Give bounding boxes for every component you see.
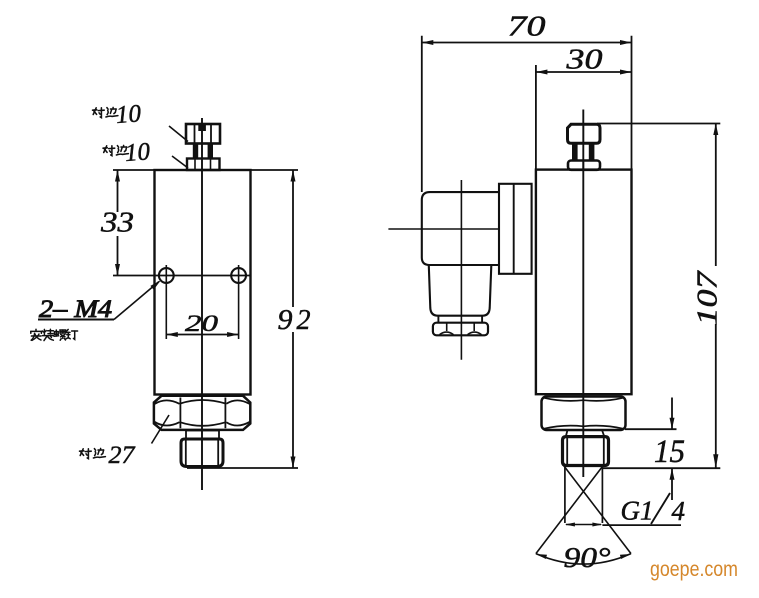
dimension 33 line with arrows [117, 170, 119, 212]
dimension 70 line with arrows [422, 42, 632, 44]
bottom extension line (left view) [187, 467, 298, 469]
gland hex nut [433, 323, 488, 336]
svg-text:goepe.com: goepe.com [650, 558, 738, 581]
svg-text:30: 30 [565, 45, 602, 76]
svg-text:27: 27 [109, 442, 137, 469]
hole centerline / extension down to 20-dim (right) [238, 265, 240, 339]
small diameter arrows at cone start [566, 524, 601, 526]
hole centerline / extension down to 20-dim (left) [165, 265, 167, 339]
svg-text:G1: G1 [621, 496, 654, 526]
dimension 30 line with arrows [536, 71, 632, 73]
connector vertical centerline [460, 180, 462, 360]
left view: screw stem between nuts [193, 144, 213, 160]
svg-text:9: 9 [278, 305, 293, 336]
left view: neck under hex nut [186, 431, 219, 440]
cone sides below port [564, 466, 566, 524]
leader line to upper nut [169, 126, 188, 142]
extension line under hex (15 dim top) [625, 428, 677, 430]
svg-text:20: 20 [185, 311, 219, 336]
extension line left (70) [421, 36, 423, 192]
left view: adjusting screw upper hex nut (对边10) [186, 124, 220, 144]
svg-text:4: 4 [672, 496, 686, 526]
right view: adjusting screw upper hex nut [568, 124, 601, 143]
leader line to lower nut [172, 156, 188, 168]
left view: bottom hex nut 对边27 [154, 396, 250, 430]
label 对边10 (lower) [103, 146, 115, 156]
mounting hole right (M4) [231, 268, 246, 283]
cone X diagonal 2 [536, 466, 603, 554]
connector cable gland taper [429, 266, 492, 316]
G1/4 leader line [602, 524, 681, 526]
right view: adjusting screw lower hex nut [568, 161, 600, 170]
leader to hex nut [152, 415, 170, 444]
dimension 20 line with arrows [166, 334, 238, 336]
connector flange [499, 184, 532, 274]
extension line (30 left) [535, 65, 537, 170]
gland neck [437, 316, 439, 323]
svg-text:10: 10 [124, 138, 151, 167]
label 对边10 (upper) [93, 108, 105, 118]
extension line from screw top to 107 dim [597, 123, 720, 125]
connector horizontal centerline [388, 228, 499, 230]
DIN connector housing [422, 192, 499, 265]
svg-text:107: 107 [693, 270, 724, 325]
left view: threaded port G1/4 [181, 439, 223, 467]
dimension 92 line with arrows [292, 170, 294, 307]
label 安装螺钉 [31, 329, 42, 340]
svg-text:70: 70 [508, 12, 546, 43]
right view: body rectangle [536, 170, 632, 395]
top extension line over body [113, 169, 298, 171]
svg-text:2: 2 [297, 305, 311, 336]
svg-text:15: 15 [654, 434, 685, 470]
left view: adjusting screw lower hex nut (对边10) [187, 159, 220, 171]
right view: bottom hex nut [542, 397, 626, 431]
bottom extension line (right view) [603, 467, 720, 469]
svg-text:10: 10 [115, 100, 142, 129]
cone X diagonal 1 [564, 466, 631, 554]
right view: threaded port G1/4 [563, 437, 609, 466]
90 degree arc with arrows [536, 554, 631, 564]
svg-text:33: 33 [100, 208, 134, 239]
left view: vertical centerline [201, 118, 203, 490]
svg-text:90°: 90° [564, 542, 611, 574]
right view: screw stem [572, 143, 594, 160]
leader from 2-M4 to left hole [114, 282, 159, 320]
left view: body rectangle [155, 170, 251, 395]
dimension 107 line with arrows [715, 124, 717, 267]
right view: screw centerline [582, 110, 584, 478]
mounting hole left (M4) [159, 268, 174, 283]
right view: neck under hex [566, 430, 605, 437]
label 对边27 [80, 449, 92, 459]
dimension 15: lower shaft/arrow [671, 468, 673, 500]
dimension 15: upper shaft/arrow [671, 398, 673, 430]
extension line right (70/30) [631, 36, 633, 170]
mounting-hole horizontal line [113, 275, 251, 277]
